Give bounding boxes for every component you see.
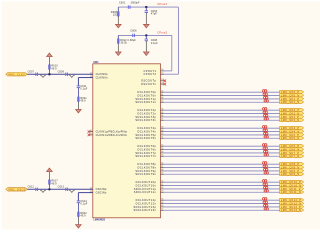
svg-text:30: 30 xyxy=(161,82,163,84)
svg-text:CPout2: CPout2 xyxy=(157,31,167,35)
pin CLKIN1p/FBCLKp/FINp stub xyxy=(90,130,128,134)
pin SDCLKOUT1n stub xyxy=(135,100,163,105)
DNI mark on DCLKOUT6n wire xyxy=(263,147,267,149)
wire SDCLKOUT1p to net flag xyxy=(164,98,280,100)
svg-text:41: 41 xyxy=(161,93,163,96)
junction filter2 xyxy=(145,34,147,36)
ground below R602 xyxy=(76,225,82,229)
net label LMK_SK5_P xyxy=(280,133,304,137)
pin CLKIN1n/FBCLKn/FINn stub xyxy=(90,133,128,137)
wire DCLKOUT10n to net flag xyxy=(164,185,280,187)
svg-text:LMK_SK9_N: LMK_SK9_N xyxy=(281,172,300,176)
part value LMK04828 xyxy=(94,219,106,222)
DNI mark on SDCLKOUT3p wire xyxy=(264,114,268,116)
pin SDCLKOUT13p stub xyxy=(134,205,164,209)
net tie mark xyxy=(40,190,46,192)
DNI mark on DCLKOUT12p wire xyxy=(263,198,267,200)
svg-text:SDCLKOUT3n: SDCLKOUT3n xyxy=(135,118,156,122)
ground below R612 xyxy=(115,52,121,56)
junction input node xyxy=(48,188,50,190)
svg-text:120: 120 xyxy=(113,13,118,16)
svg-text:42: 42 xyxy=(161,96,163,99)
pin SDCLKOUT7n stub xyxy=(135,154,163,158)
svg-text:43: 43 xyxy=(161,100,163,103)
DNI mark on DCLKOUT10p wire xyxy=(263,180,267,182)
DNI mark on SDCLKOUT13p wire xyxy=(264,204,268,206)
DNI mark on DCLKOUT8n wire xyxy=(263,165,267,167)
net tie mark 2 xyxy=(69,190,75,192)
svg-text:49.9: 49.9 xyxy=(80,215,86,218)
pin SDCLKOUT3p stub xyxy=(135,114,163,119)
pin DCLKOUT0n stub xyxy=(138,93,164,98)
net label LMK_CK2_P xyxy=(280,108,304,112)
svg-text:SDCLKOUT13n: SDCLKOUT13n xyxy=(134,208,157,212)
wire SDCLKOUT9p to net flag xyxy=(164,170,280,172)
svg-text:49.9: 49.9 xyxy=(80,100,86,103)
ground below C603 xyxy=(143,24,149,28)
pin OSCINp stub xyxy=(90,187,107,191)
wire DCLKOUT10p to net flag xyxy=(164,181,280,183)
resistor R621 49.9 to GND xyxy=(78,97,88,110)
net label LMK_CK6_N xyxy=(280,147,304,151)
pin SDCLKOUT9p stub xyxy=(135,169,163,173)
capacitor C613 (series) xyxy=(58,186,68,191)
wire DCLKOUT4p to net flag xyxy=(164,127,280,129)
net label LMK_SK11_P xyxy=(280,187,304,191)
capacitor C614 0.1µF xyxy=(77,200,88,212)
pin CPOUT1 stub xyxy=(143,69,164,73)
net label LMK_SK13_N xyxy=(280,208,304,212)
wire SDCLKOUT11n to net flag xyxy=(164,191,280,193)
net label LMK_CK12_P xyxy=(280,198,304,202)
svg-text:3900pF: 3900pF xyxy=(131,2,140,5)
resistor R612 39.0k xyxy=(117,35,136,52)
pin DCLKOUT8p stub xyxy=(138,162,164,166)
svg-text:60: 60 xyxy=(161,181,163,183)
pin SDCLKOUT7p stub xyxy=(135,150,164,155)
net label LMK_CK10_P xyxy=(280,180,304,184)
svg-text:C612: C612 xyxy=(28,186,35,189)
pin DCLKOUT10n stub xyxy=(136,183,164,187)
wire SDCLKOUT9n to net flag xyxy=(164,173,280,175)
wire SDCLKOUT11p to net flag xyxy=(164,188,280,190)
capacitor C603 47pF xyxy=(145,7,158,24)
pin OSCOUTp stub xyxy=(141,79,164,83)
capacitor C611 0.1µF xyxy=(77,85,88,97)
wire SDCLKOUT3p to net flag xyxy=(164,116,280,118)
svg-text:LMK_SK7_N: LMK_SK7_N xyxy=(281,154,300,158)
pin DCLKOUT0p stub xyxy=(138,90,164,95)
pin DCLKOUT2p stub xyxy=(138,108,165,113)
ground below R621 xyxy=(76,109,82,113)
DNI mark on SDCLKOUT7p wire xyxy=(264,150,268,152)
resistor R605 120 xyxy=(111,7,119,24)
wire n input branch xyxy=(78,78,92,86)
wire n input branch xyxy=(78,193,92,201)
DNI mark on SDCLKOUT13n wire xyxy=(264,208,268,210)
no-connect X on pin CLKIN1p xyxy=(88,130,91,133)
svg-text:61: 61 xyxy=(161,184,163,186)
wire DCLKOUT0n to net flag xyxy=(164,95,280,97)
svg-text:LMK_SK5_N: LMK_SK5_N xyxy=(281,136,300,140)
svg-text:26: 26 xyxy=(161,69,163,71)
svg-text:56: 56 xyxy=(161,163,163,165)
wire DCLKOUT8p to net flag xyxy=(164,163,280,165)
wire SDCLKOUT5n to net flag xyxy=(164,137,280,139)
DNI mark on SDCLKOUT5n wire xyxy=(264,136,268,138)
wire SDCLKOUT5p to net flag xyxy=(164,134,280,136)
DNI mark on DCLKOUT6p wire xyxy=(263,144,267,146)
pin CLKIN0p stub xyxy=(90,72,108,76)
pin SDCLKOUT1p stub xyxy=(135,96,163,101)
wire SDCLKOUT7p to net flag xyxy=(164,152,280,154)
svg-text:45: 45 xyxy=(161,111,163,114)
svg-text:67: 67 xyxy=(161,209,163,211)
pin DCLKOUT4n stub xyxy=(138,129,164,134)
DNI mark on SDCLKOUT1n wire xyxy=(264,100,268,102)
pin CLKIN0n stub xyxy=(90,75,108,79)
svg-text:59: 59 xyxy=(161,173,163,175)
net flag XMC_OSC0 xyxy=(6,187,27,191)
svg-text:C601: C601 xyxy=(119,2,126,5)
svg-text:47pF: 47pF xyxy=(151,13,157,16)
net label LMK_CK0_N xyxy=(280,93,304,97)
net label LMK_CK8_P xyxy=(280,162,304,166)
pin DCLKOUT6p stub xyxy=(138,144,164,148)
svg-text:50: 50 xyxy=(161,133,163,135)
svg-text:LMK_SK3_N: LMK_SK3_N xyxy=(281,118,300,122)
wire XMC_OSC0 input xyxy=(27,188,93,190)
pin DCLKOUT6n stub xyxy=(138,147,164,151)
wire XMC_CLK0 input xyxy=(27,73,93,75)
wire loop filter 2 xyxy=(118,34,172,36)
net tie mark 2 xyxy=(69,75,75,77)
net label LMK_SK1_P xyxy=(280,97,304,101)
ground below C608 xyxy=(143,52,149,56)
svg-text:40: 40 xyxy=(161,90,163,93)
svg-text:63: 63 xyxy=(161,191,163,193)
wire DCLKOUT12p to net flag xyxy=(164,199,280,201)
svg-text:47: 47 xyxy=(161,118,163,121)
svg-text:29: 29 xyxy=(161,79,163,81)
svg-text:62: 62 xyxy=(161,187,163,189)
DNI mark on SDCLKOUT9p wire xyxy=(264,168,268,170)
junction input node xyxy=(48,73,50,75)
wire DCLKOUT2n to net flag xyxy=(164,113,280,115)
capacitor C606 0.68uF (series) xyxy=(130,30,137,37)
svg-text:53: 53 xyxy=(161,148,163,150)
net label LMK_SK3_P xyxy=(280,115,304,119)
svg-text:C613: C613 xyxy=(58,186,65,189)
svg-text:55: 55 xyxy=(161,155,163,157)
net label LMK_SK13_P xyxy=(280,205,304,209)
resistor R610 49.9 to VCC xyxy=(49,57,59,74)
svg-text:27: 27 xyxy=(161,73,163,75)
wire SDCLKOUT7n to net flag xyxy=(164,155,280,157)
svg-text:65: 65 xyxy=(161,202,163,204)
refdes U601 xyxy=(93,62,99,64)
wire DCLKOUT4n to net flag xyxy=(164,131,280,133)
svg-text:39.0k: 39.0k xyxy=(120,42,127,45)
net tie mark xyxy=(40,75,46,77)
pin SDCLKOUT9n stub xyxy=(135,172,163,176)
pin OSCOUTn stub xyxy=(141,82,164,86)
DNI mark on SDCLKOUT11p wire xyxy=(264,186,268,188)
wire SDCLKOUT1n to net flag xyxy=(164,101,280,103)
svg-text:CLKIN0n: CLKIN0n xyxy=(96,75,108,79)
svg-text:C607: C607 xyxy=(28,71,35,74)
svg-text:49: 49 xyxy=(161,129,163,132)
wire DCLKOUT12n to net flag xyxy=(164,203,280,205)
junction filter1 xyxy=(145,6,147,8)
DNI mark on DCLKOUT4p wire xyxy=(263,126,267,128)
capacitor C608 0.1uF xyxy=(145,35,159,52)
net label LMK_SK9_N xyxy=(280,172,304,176)
resistor R602 49.9 to GND xyxy=(78,212,88,225)
svg-text:XMC_OSC0: XMC_OSC0 xyxy=(8,187,26,191)
net flag XMC_CLK0 xyxy=(6,72,27,76)
DNI mark on SDCLKOUT11n wire xyxy=(264,190,268,192)
svg-text:SDCLKOUT11n: SDCLKOUT11n xyxy=(134,190,157,194)
svg-text:49.9: 49.9 xyxy=(51,182,57,185)
svg-text:58: 58 xyxy=(161,169,163,171)
resistor R617 49.9 to VCC xyxy=(49,172,59,189)
capacitor C612 0.1uF (series) xyxy=(28,186,38,191)
svg-text:51: 51 xyxy=(161,137,163,139)
DNI mark on DCLKOUT2p wire xyxy=(263,108,267,110)
no-connect X on pin OSCOUTp xyxy=(164,80,167,83)
power arrow VCC xyxy=(47,53,53,57)
pin CPOUT2 stub xyxy=(143,72,164,76)
wire loop filter 1 xyxy=(118,6,178,8)
pin SDCLKOUT5n stub xyxy=(135,136,163,140)
net label LMK_SK5_N xyxy=(280,136,304,140)
DNI mark on SDCLKOUT3n wire xyxy=(264,118,268,120)
power arrow VCC xyxy=(47,168,53,172)
svg-text:C609: C609 xyxy=(58,71,65,74)
ground below R605 xyxy=(115,24,121,28)
svg-text:CLKIN1n/FBCLKn/FINn: CLKIN1n/FBCLKn/FINn xyxy=(96,133,128,137)
net label LMK_CK8_N xyxy=(280,165,304,169)
net label LMK_SK7_P xyxy=(280,151,304,155)
pin SDCLKOUT5p stub xyxy=(135,133,163,137)
net label LMK_CK4_P xyxy=(280,126,304,130)
svg-text:SDCLKOUT1n: SDCLKOUT1n xyxy=(135,100,156,104)
net label LMK_SK7_N xyxy=(280,154,304,158)
svg-text:49.9: 49.9 xyxy=(51,67,57,70)
pin SDCLKOUT3n stub xyxy=(135,118,163,123)
no-connect X on pin CLKIN1n xyxy=(88,134,91,137)
wire DCLKOUT8n to net flag xyxy=(164,167,280,169)
svg-text:LMK_SK11_N: LMK_SK11_N xyxy=(281,190,301,194)
net label LMK_SK3_N xyxy=(280,118,304,122)
svg-text:0.1µF: 0.1µF xyxy=(151,42,158,45)
wire DCLKOUT6p to net flag xyxy=(164,145,280,147)
pin DCLKOUT4p stub xyxy=(138,126,164,131)
DNI mark on SDCLKOUT1p wire xyxy=(264,96,268,98)
pin DCLKOUT2n stub xyxy=(138,111,164,116)
net label LMK_CK12_N xyxy=(280,201,304,205)
wire SDCLKOUT3n to net flag xyxy=(164,119,280,121)
svg-text:LMK04828: LMK04828 xyxy=(94,219,106,222)
svg-text:XMC_CLK0: XMC_CLK0 xyxy=(8,72,25,76)
wire SDCLKOUT13p to net flag xyxy=(164,206,280,208)
pin DCLKOUT10p stub xyxy=(136,180,164,184)
svg-text:CPout1: CPout1 xyxy=(157,2,167,6)
svg-text:57: 57 xyxy=(161,166,163,168)
node CPout2 xyxy=(157,31,167,35)
svg-text:LMK_SK1_N: LMK_SK1_N xyxy=(281,100,300,104)
pin DCLKOUT12p stub xyxy=(136,198,165,203)
svg-text:CPOUT2: CPOUT2 xyxy=(143,72,156,76)
net label LMK_SK9_P xyxy=(280,169,304,173)
pin SDCLKOUT13n stub xyxy=(134,208,164,212)
DNI mark on DCLKOUT0n wire xyxy=(263,93,267,95)
net label LMK_CK0_P xyxy=(280,90,304,94)
pin OSCINn stub xyxy=(90,191,107,195)
node CPout1 xyxy=(157,2,167,6)
svg-text:52: 52 xyxy=(161,145,163,147)
DNI mark on DCLKOUT8p wire xyxy=(263,162,267,164)
DNI mark on SDCLKOUT5p wire xyxy=(264,132,268,134)
net label LMK_CK2_N xyxy=(280,111,304,115)
pin SDCLKOUT11p stub xyxy=(134,187,164,191)
wire DCLKOUT6n to net flag xyxy=(164,149,280,151)
DNI mark on DCLKOUT4n wire xyxy=(263,129,267,131)
wire CPOUT1 to PLL2 loop filter xyxy=(164,35,172,71)
svg-text:48: 48 xyxy=(161,126,163,129)
no-connect X on pin OSCOUTn xyxy=(164,83,167,86)
DNI mark on DCLKOUT2n wire xyxy=(263,111,267,113)
IC U601 LMK04828 body xyxy=(93,64,161,218)
wire CPOUT2 to PLL1 loop filter xyxy=(164,7,178,74)
svg-text:46: 46 xyxy=(161,114,163,117)
capacitor C601 3900pF (series) xyxy=(119,2,140,9)
svg-text:0.1µF: 0.1µF xyxy=(80,88,87,91)
svg-text:SDCLKOUT7n: SDCLKOUT7n xyxy=(135,154,156,158)
svg-text:66: 66 xyxy=(161,205,163,207)
svg-text:OSCINn: OSCINn xyxy=(96,191,107,195)
net label LMK_SK11_N xyxy=(280,190,304,194)
DNI mark on DCLKOUT0p wire xyxy=(263,90,267,92)
DNI mark on DCLKOUT12n wire xyxy=(263,201,267,203)
DNI mark on DCLKOUT10n wire xyxy=(263,183,267,185)
svg-text:U601: U601 xyxy=(93,62,99,64)
svg-text:C606: C606 xyxy=(130,30,137,33)
svg-text:LMK_SK13_N: LMK_SK13_N xyxy=(281,208,301,212)
pin DCLKOUT8n stub xyxy=(138,165,164,169)
net label LMK_SK1_N xyxy=(280,100,304,104)
wire DCLKOUT0p to net flag xyxy=(164,91,280,93)
DNI mark on SDCLKOUT9n wire xyxy=(264,172,268,174)
wire DCLKOUT2p to net flag xyxy=(164,109,280,111)
DNI mark on SDCLKOUT7n wire xyxy=(264,154,268,156)
wire SDCLKOUT13n to net flag xyxy=(164,209,280,211)
svg-text:SDCLKOUT5n: SDCLKOUT5n xyxy=(135,136,156,140)
pin SDCLKOUT11n stub xyxy=(134,190,164,194)
capacitor C609 (series) xyxy=(58,71,68,76)
net label LMK_CK6_P xyxy=(280,144,304,148)
capacitor C607 0.1uF (series) xyxy=(28,71,38,76)
net label LMK_CK4_N xyxy=(280,129,304,133)
net label LMK_CK10_N xyxy=(280,183,304,187)
svg-text:SDCLKOUT9n: SDCLKOUT9n xyxy=(135,172,156,176)
pin DCLKOUT12n stub xyxy=(136,201,164,205)
svg-text:0.1µF: 0.1µF xyxy=(80,203,87,206)
svg-text:OSCOUTn: OSCOUTn xyxy=(141,82,156,86)
